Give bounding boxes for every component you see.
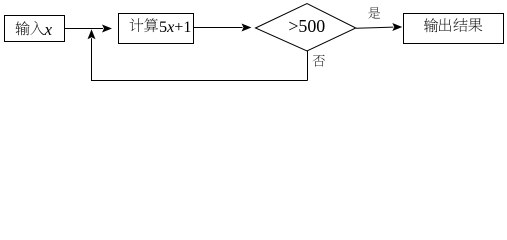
wire W1: B1 to B2 [65,28,104,30]
process box B3 "输出结果" [404,14,504,44]
label 算 (B2) [144,18,158,32]
arrowhead A2 into diamond [242,24,252,32]
process box B2 "计算5x+1" [119,14,194,44]
decision diamond D1 ">500" [256,4,356,52]
label 否 (no) [313,55,325,67]
svg-text:>500: >500 [288,16,325,36]
label 输 (B1) [16,21,30,35]
arrowhead A4 up into W1 [88,29,96,39]
label 输 (B3) [424,18,438,32]
label 计 (B2) [130,18,144,32]
wire W4: diamond bottom drop (no branch) [307,51,309,81]
label 结 (B3) [453,18,467,32]
wire W2: B2 to diamond [194,27,243,29]
wire W5: bottom return [91,80,308,82]
wire W3: diamond to B3 (yes branch) [356,27,394,28]
label 果 (B3) [468,18,482,31]
label 是 (yes) [368,7,380,19]
svg-text:x: x [44,20,53,39]
feedback riser wire (up) [91,38,93,80]
svg-text:5x+1: 5x+1 [159,18,192,36]
label 出 (B3) [439,18,451,32]
arrowhead A3 into B3 [392,23,402,31]
label 入 (B1) [30,21,44,35]
arrowhead A1 into B2 [102,25,112,33]
process box B1 "输入x" [5,16,65,42]
